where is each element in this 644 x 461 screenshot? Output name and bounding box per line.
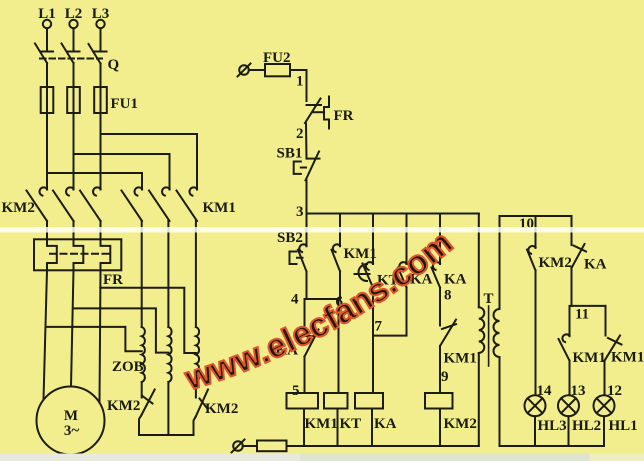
wire node 5 to KM1 coil xyxy=(304,357,306,394)
terminal L2 xyxy=(69,20,77,28)
contact KA branch4 (NO) xyxy=(406,214,408,265)
svg-text:KM2: KM2 xyxy=(539,255,572,271)
switch Q linkage (dashed) xyxy=(40,58,102,60)
transformer T secondary winding xyxy=(494,309,500,357)
wire star point bar xyxy=(139,434,194,436)
bus node 3 xyxy=(307,213,479,215)
lamp HL1 xyxy=(594,395,615,416)
contactor KM2 main contact 1 xyxy=(40,187,47,195)
svg-text:KM1: KM1 xyxy=(444,351,477,367)
svg-text:HL3: HL3 xyxy=(538,418,567,434)
contact KA branch5 (NO) xyxy=(439,214,441,265)
fuse FU1 pole 2 xyxy=(67,87,80,113)
transformer T core xyxy=(488,306,490,366)
svg-text:HL2: HL2 xyxy=(572,418,601,434)
svg-text:M: M xyxy=(64,408,78,424)
FR heater element 1 xyxy=(47,239,57,270)
svg-text:T: T xyxy=(483,291,493,307)
contact KM1 (nodes 8-9) xyxy=(440,320,456,346)
coil KA xyxy=(355,393,383,409)
svg-text:FU2: FU2 xyxy=(263,50,291,66)
wire phase2 feed to KM1 pole2 xyxy=(74,154,170,190)
wire node 9 to KM2 coil xyxy=(439,346,441,393)
autotransformer ZOB coil 1 xyxy=(142,327,145,382)
wire KM1 pole1 to ZOB coil1 xyxy=(141,221,143,327)
svg-text:KM1: KM1 xyxy=(305,416,338,432)
wire KM1 mid to lamp HL2 xyxy=(569,361,571,395)
wire primary to rail xyxy=(478,353,480,446)
svg-text:3: 3 xyxy=(296,204,304,220)
wire phase1 feed to KM1 pole3 xyxy=(47,173,142,190)
FR linkage dashed xyxy=(50,253,110,255)
lamp top rail node 10 xyxy=(500,215,572,217)
wire coil3 to KM2 star contact xyxy=(195,382,197,398)
wire bus3 to transformer primary xyxy=(478,214,480,308)
KT delay arc xyxy=(355,264,370,281)
control bottom rail xyxy=(287,445,479,447)
wire tap phase3 to coil3 xyxy=(100,288,196,353)
svg-text:KA: KA xyxy=(374,416,397,432)
transformer T primary winding xyxy=(479,307,484,353)
FR heater element 2 xyxy=(74,239,84,270)
wire KM2 poles to FR xyxy=(47,221,101,239)
svg-text:HL1: HL1 xyxy=(609,418,638,434)
coil KM2 xyxy=(425,393,453,409)
wire secondary top to lamp rail xyxy=(499,216,501,309)
contact KM1 aux (NO self-hold) xyxy=(339,214,341,247)
wire node 8 xyxy=(439,288,441,326)
wire Q2 to FU1 xyxy=(73,63,75,87)
wire KM2 coil to rail xyxy=(439,409,441,447)
stop button SB1 (NC) xyxy=(307,158,320,160)
wire KM1 aux to node 6 xyxy=(339,271,341,299)
svg-text:KA: KA xyxy=(444,272,467,288)
wire secondary bottom to lamp rail xyxy=(499,357,501,446)
wire node 2 xyxy=(305,124,308,159)
wire Q3 to FU1 xyxy=(100,64,102,88)
svg-text:1: 1 xyxy=(296,74,304,90)
wire phase1 fuse to KM2 contact xyxy=(46,113,48,190)
phase tap symbol top (circle-slash) xyxy=(239,65,249,75)
svg-text:FU1: FU1 xyxy=(111,96,139,112)
start button SB2 (NO) xyxy=(306,214,308,247)
wire FR phase1 to motor xyxy=(44,270,48,399)
svg-text:14: 14 xyxy=(537,383,553,399)
wire L2 stem xyxy=(68,28,80,51)
svg-text:ZOB: ZOB xyxy=(112,359,144,375)
fuse FU3 bottom xyxy=(257,441,287,452)
wire node 11 to KM1 contact mid xyxy=(569,306,571,336)
wire KA branch4 to node 7 xyxy=(373,288,407,336)
contact KM2 lamp branch (NO) xyxy=(535,216,537,248)
fuse FU2 xyxy=(265,64,290,76)
contact KM1 lamp mid (NO) xyxy=(562,334,569,342)
contact KT (delayed NO) xyxy=(372,214,374,265)
wire tap to FU2 xyxy=(249,69,265,71)
wire KM1 right to lamp HL1 xyxy=(604,361,606,395)
svg-text:FR: FR xyxy=(103,272,123,288)
wire SB1 to bus 3 xyxy=(306,181,308,214)
svg-text:12: 12 xyxy=(607,383,622,399)
coil KT xyxy=(324,393,348,409)
contactor KM2 star contact left xyxy=(141,390,155,416)
svg-text:3~: 3~ xyxy=(64,423,80,439)
svg-text:L2: L2 xyxy=(65,6,83,22)
svg-text:L3: L3 xyxy=(92,6,110,22)
wire node 4 to node 6 xyxy=(307,298,341,300)
lamp bottom rail xyxy=(500,445,605,447)
svg-text:KM1: KM1 xyxy=(344,246,377,262)
wire tap phase2 to coil2 xyxy=(73,308,168,352)
wire phase3 feed to KM1 pole1 xyxy=(101,134,198,190)
thermal contact FR (NC) xyxy=(307,104,322,106)
svg-text:L1: L1 xyxy=(38,6,56,22)
wire node 11 to KM1 contact right xyxy=(605,306,607,336)
svg-text:KM2: KM2 xyxy=(107,398,140,414)
fuse FU1 pole 1 xyxy=(41,87,54,113)
contactor KM2 main contact 2 xyxy=(66,187,73,195)
svg-text:KM1: KM1 xyxy=(203,200,236,216)
wire L1 stem xyxy=(41,28,53,51)
wire KM1 coil to rail xyxy=(303,409,305,447)
wire HL3 to lamp rail xyxy=(534,416,536,446)
wire KM1 pole2 to ZOB coil2 xyxy=(167,221,169,327)
contactor KM1 main contact 2 xyxy=(162,187,169,195)
wire KA contact to node 11 xyxy=(571,268,573,306)
motor M circle xyxy=(37,387,105,455)
coil KM1 xyxy=(287,393,319,409)
autotransformer ZOB coil 2 xyxy=(168,327,171,382)
lamp HL3 xyxy=(525,395,546,416)
scan seam band xyxy=(0,227,644,233)
contact KA (NO, nodes 4-5) xyxy=(304,299,306,336)
svg-text:FR: FR xyxy=(334,108,354,124)
contactor KM2 main contact 3 xyxy=(93,187,100,195)
wire KA coil to rail xyxy=(371,409,373,447)
svg-text:KM2: KM2 xyxy=(444,416,477,432)
wire KM1 pole3 to ZOB coil3 xyxy=(195,221,197,327)
fuse FU1 pole 3 xyxy=(94,87,107,113)
contact KA lamp branch (NC) xyxy=(571,216,573,245)
svg-text:KM2: KM2 xyxy=(205,401,238,417)
contactor KM1 main contact 3 xyxy=(190,187,197,195)
wire KM2 contact to lamp HL3 xyxy=(535,271,537,396)
svg-text:SB1: SB1 xyxy=(277,146,303,162)
svg-text:KM2: KM2 xyxy=(2,200,35,216)
wire HL2 to lamp rail xyxy=(568,416,570,446)
svg-text:KT: KT xyxy=(340,416,362,432)
svg-text:KA: KA xyxy=(584,257,607,273)
switch Q pole 1 blade xyxy=(35,44,47,64)
svg-text:8: 8 xyxy=(444,288,452,304)
wire coil1 to KM2 star contact xyxy=(141,382,143,398)
svg-text:2: 2 xyxy=(296,126,304,142)
svg-text:KM1: KM1 xyxy=(611,350,644,366)
svg-text:4: 4 xyxy=(291,292,299,308)
wire coil2 to star bar xyxy=(167,382,169,435)
wire Q1 to FU1 xyxy=(46,63,48,87)
autotransformer ZOB coil 3 xyxy=(196,327,199,382)
wire FU2 to node 1 xyxy=(290,70,307,101)
wire phase3 fuse to KM2 contact xyxy=(100,113,102,190)
terminal L3 xyxy=(96,20,104,28)
FR trip bracket xyxy=(324,97,329,129)
switch Q pole 2 blade xyxy=(62,44,74,64)
wire KT to node 7 xyxy=(372,288,374,336)
lamp HL2 xyxy=(558,395,579,416)
switch Q pole 3 blade xyxy=(89,44,101,64)
wire FR phase3 to motor xyxy=(100,270,101,402)
wire node 6 to KT coil xyxy=(338,299,340,393)
contactor KM2 star contact right xyxy=(196,390,209,418)
wire FR phase2 to motor xyxy=(71,270,74,386)
svg-text:13: 13 xyxy=(571,383,586,399)
contact KM1 lamp right (NC) xyxy=(605,336,621,361)
wire node 11 xyxy=(572,305,606,307)
svg-text:7: 7 xyxy=(375,319,383,335)
svg-text:KM1: KM1 xyxy=(573,350,606,366)
wire node 7 to KA coil xyxy=(372,336,374,393)
terminal L1 xyxy=(43,20,51,28)
wire KT coil to rail xyxy=(337,409,339,447)
phase tap symbol bottom (circle-slash) xyxy=(233,441,243,451)
wire SB2 to node 4 xyxy=(306,272,308,300)
thermal relay FR box xyxy=(34,239,121,270)
svg-text:5: 5 xyxy=(292,383,300,399)
bottom scan band xyxy=(0,454,644,461)
wire L3 stem xyxy=(95,28,107,51)
wire tap to FU3 xyxy=(243,445,257,447)
wire tap phase1 to coil1 xyxy=(46,327,142,351)
wire HL1 to lamp rail xyxy=(603,416,605,446)
FR heater element 3 xyxy=(101,239,111,270)
contactor KM1 main contact 1 xyxy=(135,187,142,195)
svg-text:11: 11 xyxy=(575,307,589,323)
svg-text:9: 9 xyxy=(441,369,449,385)
wire phase2 fuse to KM2 contact xyxy=(73,113,75,190)
svg-text:Q: Q xyxy=(108,57,120,73)
